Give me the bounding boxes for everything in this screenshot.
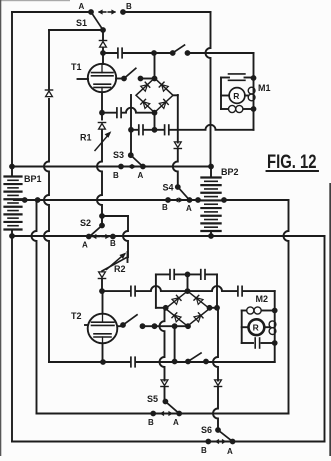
- svg-text:S5: S5: [147, 394, 158, 404]
- svg-text:A: A: [186, 204, 192, 213]
- svg-text:S1: S1: [76, 18, 87, 28]
- svg-text:BP1: BP1: [24, 174, 42, 184]
- svg-text:BP2: BP2: [221, 167, 239, 177]
- svg-text:A: A: [173, 418, 179, 427]
- svg-text:T2: T2: [71, 311, 82, 321]
- svg-text:B: B: [113, 171, 119, 180]
- svg-text:S3: S3: [113, 150, 124, 160]
- svg-text:B: B: [110, 239, 116, 248]
- svg-text:S4: S4: [163, 183, 174, 193]
- svg-text:B: B: [201, 446, 207, 455]
- svg-text:S6: S6: [201, 425, 212, 435]
- svg-text:M1: M1: [258, 83, 271, 93]
- svg-text:R: R: [233, 91, 239, 101]
- svg-text:S2: S2: [80, 218, 91, 228]
- svg-text:T1: T1: [71, 62, 82, 72]
- svg-text:R1: R1: [80, 133, 92, 143]
- svg-text:A: A: [79, 2, 85, 11]
- svg-text:A: A: [82, 241, 88, 250]
- svg-text:M2: M2: [256, 294, 269, 304]
- svg-text:B: B: [148, 418, 154, 427]
- svg-text:A: A: [138, 171, 144, 180]
- svg-text:R2: R2: [114, 264, 126, 274]
- svg-text:A: A: [227, 447, 233, 456]
- svg-text:B: B: [126, 2, 132, 11]
- svg-text:R: R: [253, 323, 259, 333]
- svg-text:B: B: [162, 203, 168, 212]
